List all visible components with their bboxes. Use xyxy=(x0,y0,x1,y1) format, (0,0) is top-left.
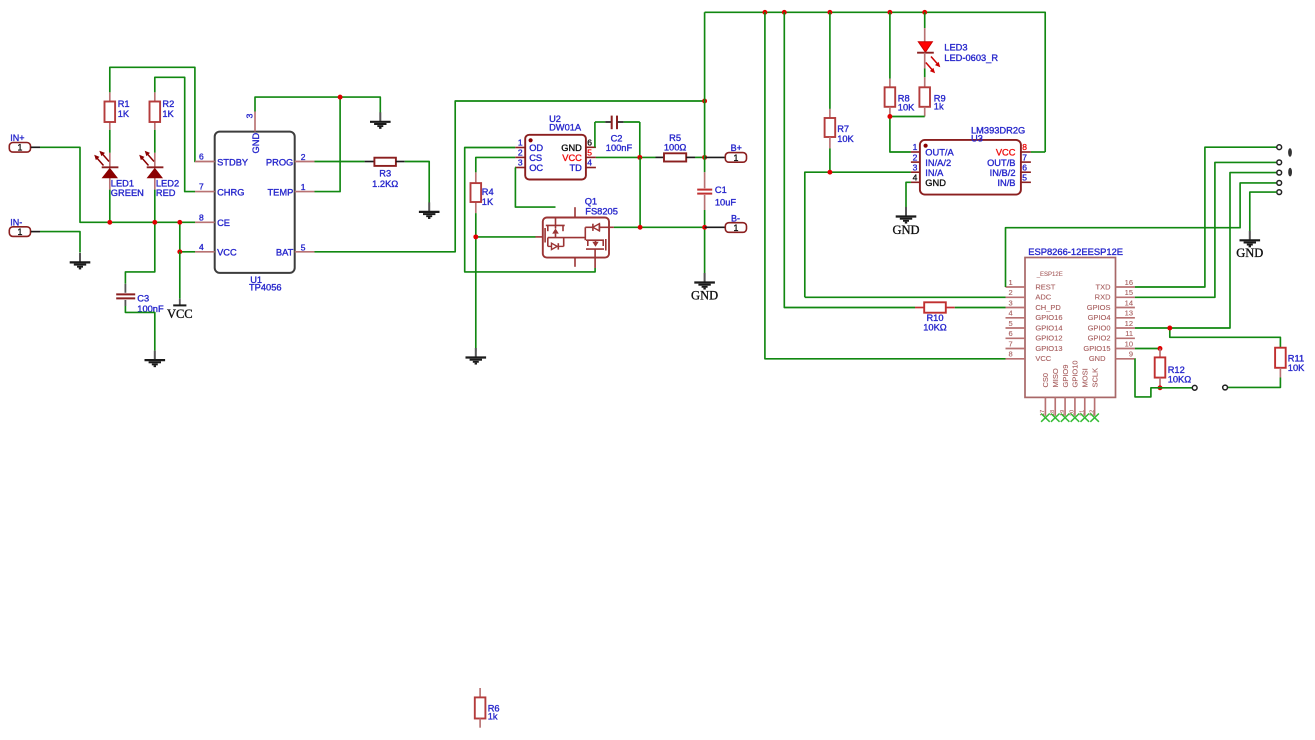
junction CE/VCC branch xyxy=(177,220,182,225)
svg-text:GPIO9: GPIO9 xyxy=(1061,365,1070,388)
wire C1 to B- row / ground xyxy=(704,210,706,273)
resistor R4 xyxy=(471,172,494,213)
svg-text:6: 6 xyxy=(587,138,592,148)
ESP pin 10 GPIO15 xyxy=(1083,339,1135,353)
svg-text:R2: R2 xyxy=(162,99,174,109)
junction R7/INA xyxy=(827,170,832,175)
U2 pin 6 GND xyxy=(561,138,596,153)
U3 pin 7 OUT/B xyxy=(987,152,1031,168)
svg-text:10KΩ: 10KΩ xyxy=(1168,375,1192,385)
ESP pin 5 GPIO14 xyxy=(1006,319,1063,333)
svg-text:LED3: LED3 xyxy=(944,43,967,53)
U2 pin 3 OC xyxy=(515,158,543,173)
svg-text:IN/A: IN/A xyxy=(925,168,944,178)
svg-text:GND: GND xyxy=(925,178,946,188)
wire Q1 drain to B- xyxy=(609,157,705,227)
resistor R12 xyxy=(1155,349,1192,388)
svg-text:GND: GND xyxy=(561,143,582,153)
node header pin 1 xyxy=(1277,145,1282,150)
svg-text:5: 5 xyxy=(1009,319,1013,328)
svg-text:GPIO15: GPIO15 xyxy=(1083,344,1110,353)
junction B+ rail / BAT xyxy=(702,99,707,104)
svg-text:1K: 1K xyxy=(482,197,494,207)
svg-text:IN-: IN- xyxy=(10,218,22,228)
U1 pin 8 CE xyxy=(195,212,230,228)
svg-text:10uF: 10uF xyxy=(715,197,737,207)
resistor R5 xyxy=(656,133,705,162)
svg-text:BAT: BAT xyxy=(276,248,294,258)
ESP pin 14 GPIOS xyxy=(1087,298,1135,312)
svg-text:R10: R10 xyxy=(926,313,943,323)
svg-text:10: 10 xyxy=(1125,339,1133,348)
LED LED1 GREEN xyxy=(94,151,144,198)
ESP pin 15 RXD xyxy=(1095,288,1135,302)
U3 pin 1 OUT/A xyxy=(911,142,955,158)
svg-text:3: 3 xyxy=(1009,298,1013,307)
U1 pin 4 VCC xyxy=(195,242,237,258)
svg-text:2: 2 xyxy=(1009,288,1013,297)
junction bus/R7 xyxy=(827,10,832,15)
svg-text:B+: B+ xyxy=(731,143,742,153)
IC ESP8266-12EESP12E box xyxy=(1025,246,1123,397)
svg-text:LED1: LED1 xyxy=(111,178,134,188)
junction B+ row xyxy=(702,155,707,160)
svg-text:VCC: VCC xyxy=(217,248,237,258)
resistor R6 xyxy=(475,688,500,728)
svg-text:13: 13 xyxy=(1125,309,1133,318)
svg-text:GPIOS: GPIOS xyxy=(1087,303,1111,312)
svg-text:TD: TD xyxy=(569,163,582,173)
svg-text:1K: 1K xyxy=(118,109,130,119)
resistor R10 xyxy=(915,302,1006,332)
ESP pin 2 ADC xyxy=(1006,288,1052,302)
U2 pin 5 VCC xyxy=(562,148,596,163)
svg-text:2: 2 xyxy=(518,148,523,158)
svg-text:VCC: VCC xyxy=(562,153,582,163)
ESP pin 1 REST xyxy=(1006,278,1056,292)
svg-text:GND: GND xyxy=(1089,354,1106,363)
U3 pin 8 VCC xyxy=(996,142,1031,158)
svg-text:OUT/A: OUT/A xyxy=(925,148,954,158)
U3 pin 3 IN/A xyxy=(911,162,944,178)
svg-text:GPIO16: GPIO16 xyxy=(1035,313,1062,322)
capacitor C1 xyxy=(697,172,736,210)
U3 pin 6 IN/B/2 xyxy=(990,162,1031,178)
ESP pin 3 CH_PD xyxy=(1006,298,1062,312)
junction GPIO15/R12 xyxy=(1158,346,1163,351)
svg-text:10KΩ: 10KΩ xyxy=(923,323,947,333)
resistor R7 xyxy=(825,12,855,172)
svg-text:R7: R7 xyxy=(837,124,849,134)
svg-text:STDBY: STDBY xyxy=(217,157,248,167)
ESP pin 18 MISO xyxy=(1050,368,1060,422)
svg-text:MISO: MISO xyxy=(1051,368,1060,387)
capacitor C2 xyxy=(595,116,640,158)
U3 pin 4 GND xyxy=(911,173,946,189)
svg-text:15: 15 xyxy=(1125,288,1133,297)
wire U3 GND to ground xyxy=(906,182,911,207)
op-amp U3 LM393DR2G box xyxy=(920,126,1025,195)
U1 pin 5 BAT xyxy=(276,242,315,257)
ESP pin 7 GPIO13 xyxy=(1006,339,1063,353)
svg-text:8: 8 xyxy=(1022,142,1027,152)
svg-text:GND: GND xyxy=(892,223,919,237)
ground GND (C1) xyxy=(691,273,718,303)
svg-text:C2: C2 xyxy=(611,133,623,143)
connector IN+ xyxy=(9,133,30,153)
svg-text:1: 1 xyxy=(913,142,918,152)
ESP pin 12 GPIO0 xyxy=(1088,319,1135,333)
ESP pin 19 GPIO9 xyxy=(1060,365,1070,422)
svg-text:8: 8 xyxy=(1009,350,1013,359)
svg-text:GPIO13: GPIO13 xyxy=(1035,344,1062,353)
svg-text:Q1: Q1 xyxy=(585,197,597,207)
junction Q1/C2 branch xyxy=(638,225,643,230)
svg-text:10K: 10K xyxy=(898,102,915,112)
svg-text:_ESP12E: _ESP12E xyxy=(1036,272,1063,278)
connector B- xyxy=(705,213,747,233)
svg-text:GND: GND xyxy=(691,289,718,303)
wire BAT to B+ rail xyxy=(315,101,705,252)
svg-text:RED: RED xyxy=(156,188,176,198)
wire U2 VCC row xyxy=(596,156,656,158)
wire RXD net xyxy=(1135,162,1277,297)
node header pin 2 xyxy=(1277,160,1282,165)
svg-text:10K: 10K xyxy=(1288,363,1305,373)
ESP pin 22 SCLK xyxy=(1089,368,1099,422)
svg-text:100nF: 100nF xyxy=(606,143,633,153)
svg-text:4: 4 xyxy=(913,173,918,183)
svg-text:U3: U3 xyxy=(971,133,983,143)
junction R12 bottom xyxy=(1158,385,1163,390)
svg-text:CHRG: CHRG xyxy=(217,187,244,197)
svg-text:3: 3 xyxy=(518,158,523,168)
U2 pin 2 CS xyxy=(515,148,542,163)
svg-text:4: 4 xyxy=(1009,309,1013,318)
junction VCC row xyxy=(177,249,182,254)
svg-text:6: 6 xyxy=(1009,329,1013,338)
ESP pin 16 TXD xyxy=(1096,278,1135,292)
node terminal A xyxy=(1192,385,1197,390)
svg-text:VCC: VCC xyxy=(1035,354,1051,363)
junction bus/R8 xyxy=(887,10,892,15)
ESP pin 9 GND xyxy=(1089,350,1135,364)
svg-text:1.2KΩ: 1.2KΩ xyxy=(372,179,398,189)
svg-text:IN/A/2: IN/A/2 xyxy=(925,158,951,168)
U2 pin 4 TD xyxy=(569,158,595,173)
resistor R9 xyxy=(919,69,945,117)
junction C2/VCC xyxy=(637,155,642,160)
ESP pin 4 GPIO16 xyxy=(1006,309,1063,323)
svg-text:LED-0603_R: LED-0603_R xyxy=(944,53,998,63)
wire R3 to ground xyxy=(405,162,430,203)
U1 pin 6 STDBY xyxy=(195,152,248,168)
svg-text:5: 5 xyxy=(587,148,592,158)
svg-text:R12: R12 xyxy=(1168,365,1185,375)
svg-text:1: 1 xyxy=(733,223,738,233)
U1 pin 1 TEMP xyxy=(267,182,314,197)
svg-text:2: 2 xyxy=(301,152,306,162)
svg-text:OUT/B: OUT/B xyxy=(987,158,1015,168)
svg-text:R5: R5 xyxy=(669,133,681,143)
svg-text:VCC: VCC xyxy=(996,148,1016,158)
svg-text:14: 14 xyxy=(1125,298,1133,307)
wire ESP GND to R12 bottom xyxy=(1135,359,1160,397)
wire TEMP to GND net xyxy=(315,97,341,192)
svg-text:R3: R3 xyxy=(379,168,391,178)
svg-text:1k: 1k xyxy=(488,712,498,722)
node header pin 5 xyxy=(1277,190,1282,195)
svg-text:ESP8266-12EESP12E: ESP8266-12EESP12E xyxy=(1028,246,1123,257)
resistor R1 xyxy=(105,92,130,130)
svg-text:OD: OD xyxy=(529,143,543,153)
junction R8/R9 xyxy=(887,114,892,119)
svg-text:OC: OC xyxy=(529,163,543,173)
svg-text:3: 3 xyxy=(913,162,918,172)
svg-text:GPIO2: GPIO2 xyxy=(1088,334,1111,343)
wire R7 to IN/A row xyxy=(805,172,911,297)
svg-text:TP4056: TP4056 xyxy=(249,283,282,293)
svg-text:R1: R1 xyxy=(118,99,130,109)
svg-text:C3: C3 xyxy=(137,294,149,304)
wire R1 top to STDBY xyxy=(110,67,195,161)
junction bus/LED3 xyxy=(922,10,927,15)
svg-text:11: 11 xyxy=(1125,329,1133,338)
wire R12 bottom to terminal xyxy=(1160,387,1192,389)
junction GPIO0 xyxy=(1167,326,1172,331)
wire OC to Q1 gate xyxy=(515,168,555,208)
ground GND (U3) xyxy=(892,207,919,237)
ESP pin 11 GPIO2 xyxy=(1088,329,1135,343)
svg-text:GREEN: GREEN xyxy=(111,188,144,198)
svg-text:DW01A: DW01A xyxy=(549,122,582,132)
ESP pin 13 GPIO4 xyxy=(1088,309,1135,323)
ground (C3) xyxy=(145,351,166,367)
junction CE/LED2 xyxy=(152,220,157,225)
op-amp U1 TP4056 box xyxy=(215,132,295,293)
wire REST net xyxy=(1006,183,1277,287)
svg-text:VCC: VCC xyxy=(167,307,193,321)
wire U3 VCC to bus xyxy=(1031,151,1045,153)
resistor R11 xyxy=(1275,348,1305,378)
svg-text:GPIO12: GPIO12 xyxy=(1035,334,1062,343)
ground (U1 GND net) xyxy=(370,112,391,128)
LED LED2 RED xyxy=(139,151,179,198)
svg-text:CE: CE xyxy=(217,218,230,228)
svg-text:9: 9 xyxy=(1129,350,1133,359)
svg-text:5: 5 xyxy=(1022,173,1027,183)
wire U1 GND net to ground xyxy=(255,97,380,112)
svg-text:1K: 1K xyxy=(162,109,174,119)
ground (R4) xyxy=(466,348,487,364)
ground (R3) xyxy=(419,202,440,218)
svg-text:ADC: ADC xyxy=(1035,293,1051,302)
ESP pin 20 GPIO10 xyxy=(1070,360,1080,421)
svg-text:REST: REST xyxy=(1035,282,1055,291)
wire LED1 anode to CE row xyxy=(109,130,111,223)
svg-text:GPIO10: GPIO10 xyxy=(1071,360,1080,387)
connector shell mark 1 xyxy=(1288,148,1292,157)
svg-text:1: 1 xyxy=(518,138,523,148)
svg-text:5: 5 xyxy=(301,242,306,252)
junction bus/ESP VCC xyxy=(762,10,767,15)
resistor R2 xyxy=(150,92,175,130)
junction B- row xyxy=(702,225,707,230)
svg-text:7: 7 xyxy=(1009,339,1013,348)
wire R4 bottom to Q1/ground xyxy=(476,213,536,351)
svg-text:R11: R11 xyxy=(1288,353,1304,363)
svg-text:IN/B: IN/B xyxy=(997,178,1015,188)
connector IN- xyxy=(9,218,30,237)
wire R8/R9 to OUT/A xyxy=(890,117,925,153)
ground (IN-) xyxy=(70,253,91,269)
svg-text:100Ω: 100Ω xyxy=(664,143,687,153)
svg-text:3: 3 xyxy=(245,113,255,118)
svg-text:TXD: TXD xyxy=(1096,282,1112,291)
wire R2 top to CHRG xyxy=(155,77,195,191)
svg-text:7: 7 xyxy=(1022,152,1027,162)
U3 pin 5 IN/B xyxy=(997,173,1030,188)
capacitor C3 xyxy=(116,284,164,314)
U1 pin 2 PROG xyxy=(266,152,315,167)
svg-text:8: 8 xyxy=(199,212,204,222)
svg-text:IN+: IN+ xyxy=(10,133,24,143)
wire IN- to ground xyxy=(31,232,80,253)
wire GPIO15 net xyxy=(1135,348,1160,350)
node terminal B xyxy=(1223,385,1228,390)
transistor Q1 FS8205 xyxy=(536,197,618,269)
svg-text:1k: 1k xyxy=(934,102,944,112)
wire top bus xyxy=(705,12,1046,152)
svg-text:CS: CS xyxy=(529,153,542,163)
wire B+ rail vertical xyxy=(704,12,706,172)
svg-text:16: 16 xyxy=(1125,278,1133,287)
connector shell mark 2 xyxy=(1288,168,1292,177)
svg-text:2: 2 xyxy=(913,152,918,162)
U2 pin 1 OD xyxy=(515,138,543,153)
resistor R3 xyxy=(315,158,405,189)
connector B+ xyxy=(705,143,747,163)
svg-text:CH_PD: CH_PD xyxy=(1035,303,1061,312)
svg-text:1: 1 xyxy=(17,227,22,237)
wire CE row xyxy=(179,222,181,252)
junction R4/Q1 xyxy=(473,234,478,239)
U3 pin 2 IN/A/2 xyxy=(911,152,951,168)
wire GPIO0 net xyxy=(1135,173,1281,348)
node header pin 3 xyxy=(1277,170,1282,175)
svg-text:6: 6 xyxy=(199,152,204,162)
svg-text:GND: GND xyxy=(251,133,261,154)
svg-text:FS8205: FS8205 xyxy=(585,207,618,217)
ESP pin 8 VCC xyxy=(1006,350,1052,364)
svg-text:1: 1 xyxy=(733,153,738,163)
junction GND net xyxy=(338,95,343,100)
ground GND (header) xyxy=(1236,231,1263,260)
U1 pin 3 GND top xyxy=(245,112,261,154)
svg-text:10K: 10K xyxy=(837,134,854,144)
svg-text:C1: C1 xyxy=(715,185,727,195)
wire C3 to ground xyxy=(125,306,154,351)
LED LED3 xyxy=(917,12,998,73)
wire LED2 anode / CE to C3 xyxy=(125,130,154,284)
wire VCC rail to ESP pin8 xyxy=(765,12,1006,359)
wire IN+ to CE row xyxy=(31,147,195,222)
svg-text:4: 4 xyxy=(199,242,204,252)
node header pin 4 xyxy=(1277,181,1282,186)
wire R11 bottom to terminal xyxy=(1228,378,1281,388)
svg-text:TEMP: TEMP xyxy=(267,187,293,197)
power VCC symbol xyxy=(167,252,193,321)
svg-text:SCLK: SCLK xyxy=(1090,368,1099,388)
svg-text:R4: R4 xyxy=(482,187,494,197)
wire CH_PD rail xyxy=(784,12,915,307)
wire VCC pin row xyxy=(180,251,195,253)
junction CE/LED1 xyxy=(107,220,112,225)
svg-text:GPIO4: GPIO4 xyxy=(1088,313,1111,322)
svg-text:7: 7 xyxy=(199,182,204,192)
wire OD net xyxy=(465,148,595,272)
wire terminal5 to ground xyxy=(1250,192,1277,231)
wire TXD net xyxy=(1135,147,1277,287)
svg-text:1: 1 xyxy=(1009,278,1013,287)
ESP pin 17 CS0 xyxy=(1040,373,1050,422)
svg-text:B-: B- xyxy=(731,213,740,223)
svg-text:IN/B/2: IN/B/2 xyxy=(990,168,1016,178)
ESP pin 21 MOSI xyxy=(1080,368,1090,421)
svg-text:GPIO14: GPIO14 xyxy=(1035,323,1062,332)
svg-text:LED2: LED2 xyxy=(156,178,179,188)
svg-text:1: 1 xyxy=(17,143,22,153)
op-amp U2 DW01A box xyxy=(525,114,586,179)
svg-text:RXD: RXD xyxy=(1095,293,1111,302)
svg-text:1: 1 xyxy=(301,182,306,192)
wire ADC net xyxy=(805,296,1006,298)
ESP pin 6 GPIO12 xyxy=(1006,329,1063,343)
junction bus/CH_PD xyxy=(782,10,787,15)
svg-text:CS0: CS0 xyxy=(1041,373,1050,388)
svg-text:4: 4 xyxy=(587,158,592,168)
svg-text:6: 6 xyxy=(1022,162,1027,172)
resistor R8 xyxy=(885,12,916,116)
svg-text:12: 12 xyxy=(1125,319,1133,328)
svg-text:GND: GND xyxy=(1236,246,1263,260)
U1 pin 7 CHRG xyxy=(195,182,244,198)
svg-text:GPIO0: GPIO0 xyxy=(1088,323,1111,332)
wire CS to R4 xyxy=(476,157,515,172)
svg-text:MOSI: MOSI xyxy=(1080,368,1089,387)
svg-text:PROG: PROG xyxy=(266,157,293,167)
